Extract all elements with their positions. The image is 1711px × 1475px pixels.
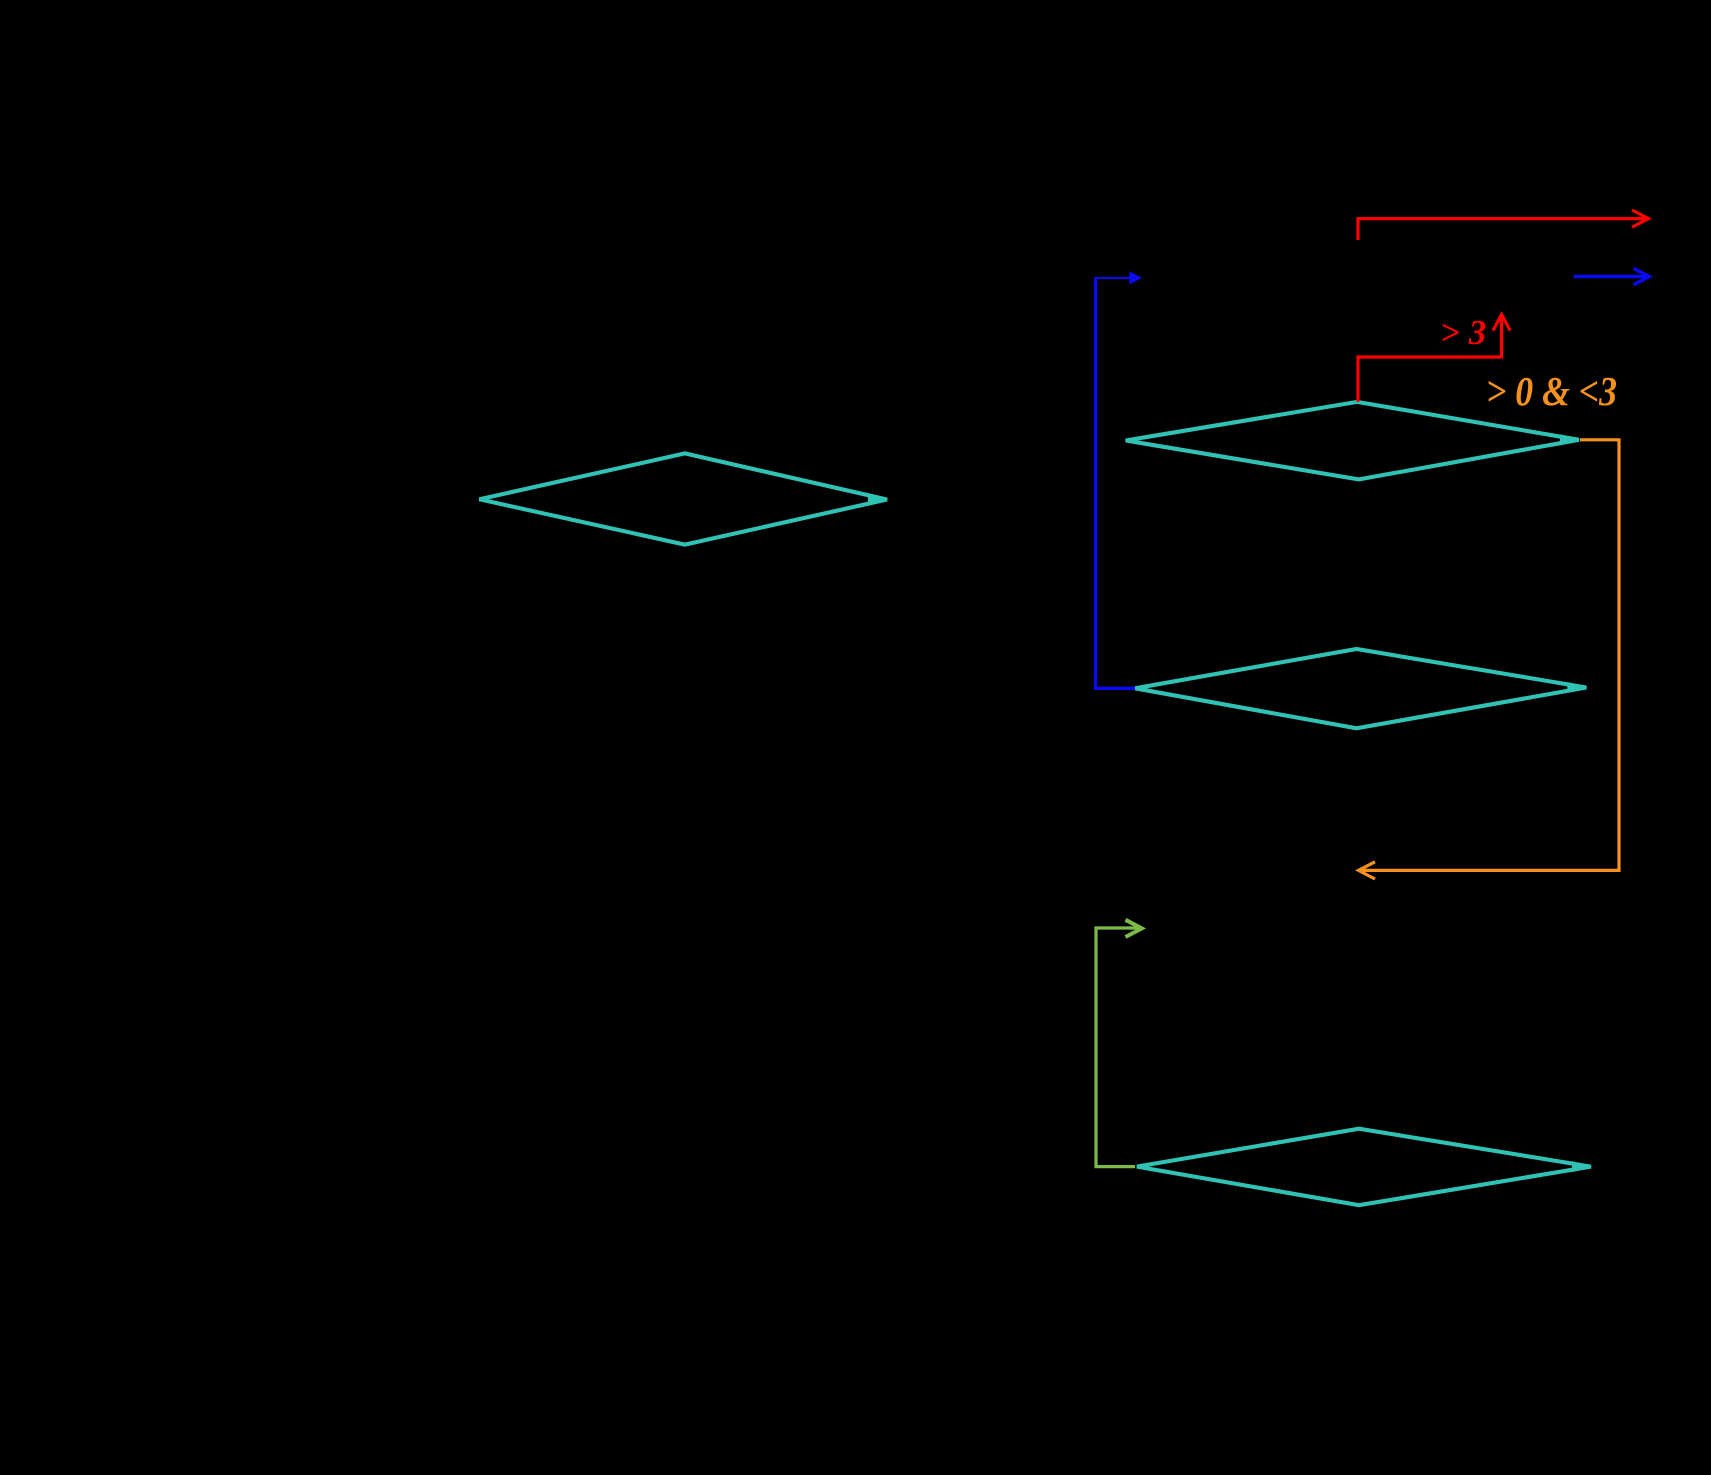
svg-text:> 3: > 3 bbox=[1440, 313, 1486, 352]
decision diamond D3 (middle right) bbox=[1135, 649, 1586, 728]
decision diamond D4 (bottom right) bbox=[1137, 1129, 1591, 1206]
arrowhead at right vertex of diamond D4 bbox=[1572, 1161, 1592, 1172]
arrowhead at right vertex of diamond D2 bbox=[1560, 434, 1580, 445]
orange arrow (from D2 right vertex, down and left) bbox=[1359, 440, 1620, 879]
arrowhead at right vertex of diamond D3 bbox=[1567, 682, 1587, 693]
decision diamond D1 (left) bbox=[479, 453, 887, 544]
arrowhead at right vertex of diamond D1 bbox=[868, 494, 888, 505]
decision diamond D2 (top right) bbox=[1126, 402, 1579, 480]
blue arrow (left loop, pointing right at top) bbox=[1094, 277, 1135, 688]
red arrow (top, pointing right) bbox=[1358, 210, 1649, 240]
green arrow (left loop to D4, pointing right at top) bbox=[1096, 920, 1142, 1167]
red arrow "> 3" (from D2 top vertex, up) bbox=[1358, 315, 1510, 402]
blue arrow (top right, pointing right) bbox=[1574, 268, 1650, 285]
svg-text:> 0 & <3: > 0 & <3 bbox=[1486, 368, 1617, 414]
